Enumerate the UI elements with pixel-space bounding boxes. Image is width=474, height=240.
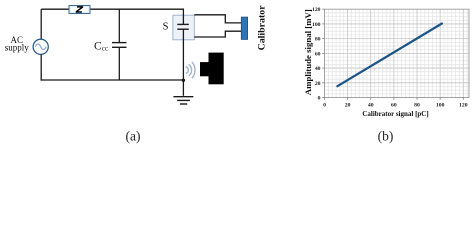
svg-text:cc: cc (102, 45, 108, 53)
ground (173, 97, 193, 104)
wire top horizontal right of Z (90, 8, 185, 10)
microphone sensor head (200, 62, 209, 76)
chart plot border (325, 9, 470, 97)
svg-text:100: 100 (436, 103, 445, 109)
label Ccc (94, 41, 108, 53)
chart axis ticks (322, 9, 463, 100)
svg-text:120: 120 (312, 7, 321, 13)
junction dot bottom node (182, 79, 185, 82)
svg-text:40: 40 (368, 103, 374, 109)
svg-text:(b): (b) (378, 129, 394, 144)
svg-text:120: 120 (459, 103, 468, 109)
microphone sensor body (209, 53, 224, 85)
svg-text:0: 0 (323, 103, 326, 109)
svg-text:20: 20 (345, 103, 351, 109)
svg-text:40: 40 (315, 66, 321, 72)
wire left vertical lower (40, 54, 42, 80)
capacitor Ccc plates (112, 43, 127, 48)
svg-text:C: C (94, 41, 102, 53)
svg-text:60: 60 (391, 103, 397, 109)
label AC supply (5, 35, 30, 53)
sensor capacitor upper lead (182, 9, 184, 24)
impedance Z (69, 6, 90, 14)
acoustic waves (186, 62, 195, 78)
wire to calibrator upper (194, 15, 241, 23)
svg-text:80: 80 (414, 103, 420, 109)
svg-text:Amplitude signal [mV]: Amplitude signal [mV] (303, 9, 313, 95)
svg-text:Calibrator signal [pC]: Calibrator signal [pC] (362, 110, 428, 118)
svg-text:supply: supply (5, 43, 30, 53)
svg-text:0: 0 (318, 96, 321, 102)
sensor box S (173, 15, 194, 40)
chart major gridlines (348, 9, 464, 97)
wire to calibrator lower (194, 31, 241, 37)
svg-text:20: 20 (315, 81, 321, 87)
y tick labels (312, 7, 321, 101)
sensor capacitor plates (177, 24, 189, 29)
wire left vertical upper (40, 9, 42, 39)
chart plot area (325, 9, 470, 97)
capacitor Ccc upper lead (118, 9, 120, 42)
svg-text:S: S (163, 21, 169, 32)
AC source G1 (33, 39, 48, 54)
calibrator electrode (241, 17, 247, 39)
wire bottom horizontal (41, 79, 184, 81)
capacitor Ccc lower lead (118, 47, 120, 80)
data line (337, 24, 442, 87)
sensor capacitor lower lead to ground (182, 29, 184, 96)
svg-text:Calibrator: Calibrator (257, 5, 268, 51)
wire top horizontal left of Z (41, 8, 69, 10)
x tick labels (323, 103, 468, 109)
svg-text:80: 80 (315, 37, 321, 43)
svg-text:100: 100 (312, 22, 321, 28)
chart minor gridlines (328, 9, 467, 97)
svg-text:60: 60 (315, 51, 321, 57)
svg-text:(a): (a) (126, 128, 141, 143)
